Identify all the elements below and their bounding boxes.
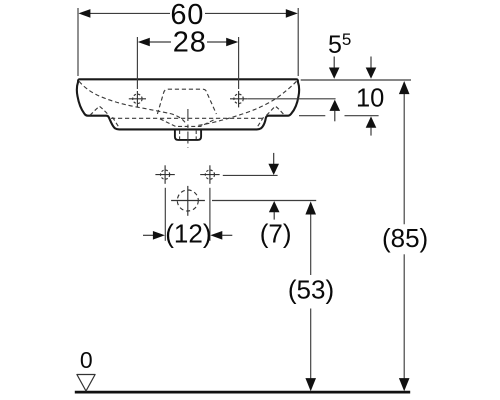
dimension (85): vertical line	[403, 94, 405, 225]
dimension 28: arrowhead right	[226, 38, 238, 47]
bowl silhouette right (dashed curve)	[197, 81, 297, 125]
drain flange outline	[175, 130, 201, 140]
svg-text:(53): (53)	[288, 275, 334, 305]
dimension 28: arrowhead left	[138, 38, 150, 47]
dimension (7): lower arrow (up)	[269, 201, 280, 212]
tap hole level extension line	[247, 98, 335, 100]
dimension (12): left arrow	[143, 234, 154, 236]
hidden step edge right (dashed)	[257, 117, 264, 127]
fixing hole right: dashed circle	[205, 170, 214, 179]
svg-text:0: 0	[80, 347, 93, 373]
overflow bump right (dashed)	[267, 106, 285, 115]
dimension 28: line	[148, 41, 171, 43]
dimension (85): lower arrow (down)	[399, 378, 410, 391]
fixing hole level line	[223, 174, 278, 176]
dimension (53): vertical line	[310, 214, 312, 276]
hidden line under rim ledge (dashed)	[111, 117, 265, 119]
dimension (7): upper arrow (down)	[273, 153, 275, 165]
tap hole left: dashed circle	[133, 94, 142, 103]
drain pipe hidden lines (dashed)	[179, 131, 181, 140]
dimension (12): right arrow	[210, 231, 222, 240]
dimension 28: extension line right	[238, 37, 240, 89]
svg-text:10: 10	[356, 85, 384, 113]
overflow bump left (dashed)	[90, 106, 109, 115]
drain hole level line	[212, 200, 316, 202]
bowl silhouette left (dashed curve)	[79, 81, 185, 122]
dimension 10: upper arrow (down)	[370, 57, 372, 69]
svg-text:28: 28	[173, 27, 207, 59]
dimension (12): extension line left	[164, 188, 166, 241]
ledge level extension line	[299, 115, 325, 117]
tap hole right: dashed circle	[234, 94, 243, 103]
svg-text:(12): (12)	[165, 219, 211, 249]
datum triangle	[77, 375, 95, 392]
dimension 60: arrowhead left	[78, 9, 90, 18]
svg-text:(7): (7)	[260, 219, 292, 249]
washbasin outer outline	[77, 79, 299, 129]
dimension 5.5: upper arrow (down)	[333, 57, 335, 69]
basin interior hidden recess (dashed trapezoid)	[157, 89, 216, 114]
dimension 60: extension line right	[297, 8, 299, 76]
dimension (85): upper arrow (up)	[399, 81, 410, 94]
dimension (53): lower arrow (down)	[305, 378, 316, 391]
dimension 28: extension line left	[136, 37, 138, 89]
tap hole right: cross	[230, 98, 247, 100]
basin centre line	[187, 109, 189, 148]
drain hole: cross	[171, 200, 205, 202]
hidden step edge left (dashed)	[113, 117, 120, 127]
basin bottom funnel to drain (dashed)	[160, 119, 216, 127]
dimension 60: line	[84, 12, 170, 14]
dimension (12): extension line right	[209, 188, 211, 241]
dimension (53): upper arrow (up)	[305, 201, 316, 214]
rim level extension line	[301, 79, 411, 81]
svg-text:(85): (85)	[382, 223, 428, 253]
fixing hole left: cross	[155, 174, 174, 176]
dimension 10: lower arrow (up)	[366, 116, 377, 127]
drain hole: dashed circle	[177, 190, 198, 211]
fixing hole left: dashed circle	[161, 170, 170, 179]
fixing hole right: cross	[200, 174, 219, 176]
dimension 60: arrowhead right	[286, 9, 298, 18]
dimension 5.5: lower arrow (up)	[330, 100, 341, 111]
dimension 60: extension line left	[77, 8, 79, 76]
floor line	[75, 391, 410, 394]
tap hole left: cross	[129, 98, 146, 100]
